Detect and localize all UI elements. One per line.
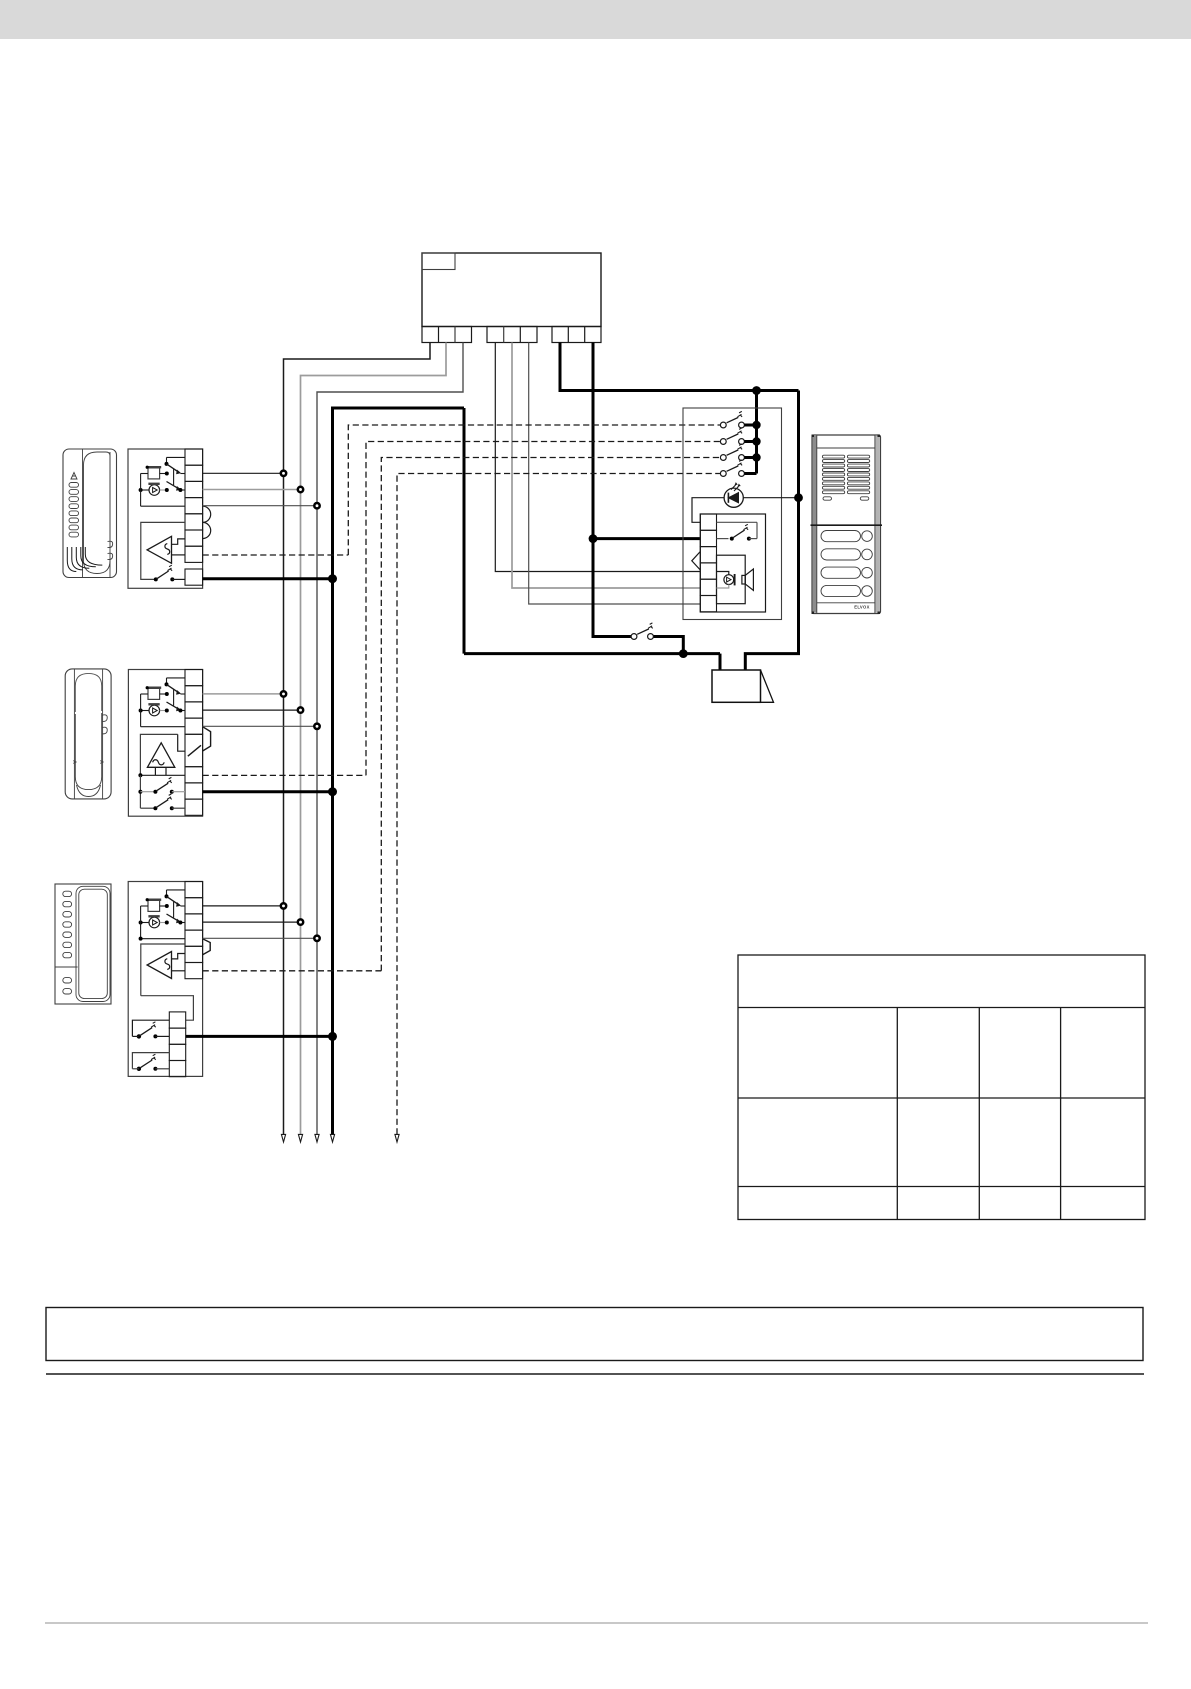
interphone 2 amplifier box	[140, 734, 177, 775]
interphone 1 buttons	[69, 483, 79, 488]
note box	[46, 1308, 1143, 1361]
interphone 2 internal switch blade	[188, 745, 201, 756]
entrance panel name plate 3	[821, 567, 861, 578]
junction riser 1 floor 1	[281, 471, 286, 476]
wire to audio terminal 1	[495, 343, 700, 572]
interphone 1 buzzer common wire	[141, 473, 148, 475]
interphone 3 circuit box	[128, 882, 202, 1077]
wire lock supply	[560, 343, 799, 391]
interphone 2 service switch 2	[140, 807, 155, 809]
junction lock rail	[679, 649, 688, 658]
junction riser 4 floor 1	[328, 574, 337, 583]
interphone 2 wire link	[139, 775, 141, 808]
interphone 2 ringer coil	[148, 688, 160, 699]
riser arrow 3	[315, 1134, 319, 1142]
interphone 3 wire to riser 2	[203, 921, 301, 923]
interphone 2 amplifier	[147, 743, 174, 768]
lamp	[724, 488, 743, 507]
interphone 3 amplifier box	[141, 944, 185, 996]
interphone 2 wire to riser 4	[203, 790, 333, 793]
interphone 1 amplifier box	[141, 522, 185, 579]
interphone 2 wire to riser 1	[203, 693, 284, 695]
interphone 1 grille arcs	[67, 547, 76, 572]
interphone 3 terminal strip	[185, 882, 203, 898]
entrance panel button 3	[862, 567, 873, 578]
interphone 1 handset switch	[154, 577, 158, 581]
lamp wire left	[692, 498, 724, 523]
dashed call wire 3	[203, 970, 382, 972]
speaker module terminal strip	[700, 514, 716, 530]
junction riser 2 floor 3	[298, 919, 303, 924]
dashed call wire 4 spare	[397, 474, 720, 1135]
interphone 3 wire to riser 1	[203, 905, 284, 907]
wire lock bottom rail	[464, 652, 720, 655]
interphone 1 line coil	[203, 506, 211, 538]
interphone 3 service switch 1	[132, 1020, 169, 1036]
junction amplifier supply	[589, 534, 598, 543]
entrance panel speaker grille	[822, 455, 844, 458]
interphone 2 circuit box	[128, 670, 202, 817]
wire call button common riser	[755, 391, 758, 474]
interphone 1 wire to riser 1	[203, 472, 284, 474]
power supply label window	[422, 253, 455, 270]
interphone 1 hooks	[108, 541, 113, 559]
junction riser 1 floor 3	[281, 903, 286, 908]
wire to audio terminal 2	[512, 343, 700, 589]
interphone 3 junction buzzer common	[139, 937, 143, 941]
dashed call wire 2	[203, 774, 366, 776]
wire door switch to lock	[651, 637, 684, 654]
interphone 1 front view	[63, 449, 117, 578]
entrance panel button 4	[862, 586, 873, 597]
svg-text:ELVOX: ELVOX	[854, 605, 869, 610]
interphone 3 line bracket	[203, 939, 211, 955]
junction riser 3 floor 1	[314, 503, 319, 508]
header gray bar	[0, 0, 1191, 39]
footer rule	[45, 1622, 1148, 1624]
speaker box	[717, 555, 746, 604]
interphone 3 service switch 2	[132, 1053, 169, 1069]
interphone 1 wire to riser 2	[203, 489, 301, 491]
interphone 3 hook switch second pole	[167, 914, 180, 922]
interphone 2 wire to riser 2	[203, 709, 301, 711]
junction riser 1 floor 2	[281, 691, 286, 696]
interphone 3 ringer coil	[148, 900, 160, 911]
power supply terminal block 1	[422, 327, 472, 343]
junction lamp to riser	[794, 493, 803, 502]
junction riser 4 floor 3	[328, 1032, 337, 1041]
microphone	[724, 575, 734, 585]
wire bus 3 from power supply	[317, 343, 463, 1135]
interphone 1 buzzer	[149, 485, 160, 496]
interphone 1 wire to riser 4	[203, 577, 333, 580]
riser arrow 1	[281, 1134, 285, 1142]
interphone 2 hooks	[102, 715, 107, 734]
speaker module switch	[717, 521, 758, 523]
interphone 3 speaker grille frame	[76, 886, 110, 1001]
interphone 1 hook switch	[167, 456, 186, 458]
entrance panel name plate 1	[821, 531, 861, 542]
interphone 2 buzzer common wire	[141, 693, 148, 695]
speaker module box	[700, 514, 765, 612]
door release switch	[631, 634, 637, 640]
call button 4 common stub	[744, 472, 756, 475]
riser arrow 2	[298, 1134, 302, 1142]
call button 3	[720, 455, 726, 461]
wire lock supply right riser	[745, 391, 798, 671]
interphone 1 circuit box	[128, 449, 203, 588]
interphone 2 hook switch	[167, 677, 186, 679]
interphone 3 amplifier to lower strip wire	[141, 996, 194, 1021]
entrance panel name plate 4	[821, 585, 861, 596]
interphone 3 buzzer common wire	[141, 905, 148, 907]
entrance panel bottom line	[817, 602, 875, 604]
junction riser 4 floor 2	[328, 787, 337, 796]
separator rule	[46, 1373, 1144, 1375]
interphone 2 service switch 1	[140, 791, 155, 793]
entrance panel	[812, 435, 881, 614]
wire bus 2 from power supply	[301, 343, 447, 1135]
electric lock	[712, 670, 761, 702]
call button 2	[720, 439, 726, 445]
interphone 1 ringer coil	[148, 468, 160, 479]
wire door switch supply	[593, 343, 634, 637]
interphone 2 handset	[75, 673, 101, 712]
junction riser 2 floor 1	[298, 487, 303, 492]
interphone 3 front view	[55, 884, 111, 1004]
interphone 1 volume symbol	[71, 473, 77, 480]
junction call button	[752, 437, 760, 445]
interphone 2 wire to riser 3	[203, 725, 317, 727]
interphone 3 lower terminal strip	[169, 1012, 185, 1028]
lamp wire right	[743, 497, 798, 499]
interphone 2 hook switch second pole	[167, 702, 180, 710]
wire to audio terminal 3	[529, 343, 701, 605]
interphone 3 section line	[55, 966, 78, 968]
junction call button common	[752, 386, 761, 395]
interphone 2 line bracket	[203, 727, 211, 751]
call button 3 common stub	[744, 456, 756, 459]
interphone 2 amplifier output wire	[140, 774, 185, 776]
wire bus 4 common return	[333, 408, 465, 1135]
loudspeaker	[742, 575, 745, 584]
interphone 3 buzzer	[149, 917, 160, 928]
call button 1	[720, 422, 726, 428]
call button 1 common stub	[744, 424, 756, 427]
interphone 3 hook switch	[167, 889, 186, 891]
junction riser 2 floor 2	[298, 707, 303, 712]
interphone 2 buzzer	[149, 705, 160, 716]
riser arrow spare	[395, 1134, 399, 1142]
riser arrow 4	[330, 1134, 334, 1142]
entrance panel button 1	[862, 531, 873, 542]
wire lock return riser	[463, 408, 466, 654]
entrance panel divider	[811, 524, 883, 526]
interphone 1 terminal strip	[185, 449, 203, 465]
speaker unit box	[683, 408, 782, 620]
junction riser 3 floor 2	[314, 724, 319, 729]
wire bus 1 from power supply	[284, 343, 431, 1135]
power supply unit	[422, 253, 601, 327]
interphone 2 front view	[65, 669, 111, 799]
interphone 2 terminal strip	[185, 670, 203, 686]
entrance panel top line	[817, 447, 875, 449]
interphone 3 amplifier	[147, 952, 171, 979]
entrance panel name plate 2	[821, 549, 861, 560]
interphone 3 lower buttons	[63, 978, 72, 983]
interphone 1 amplifier	[147, 536, 171, 563]
interphone 1 wire to riser 3	[203, 505, 317, 507]
conductor table	[738, 955, 1145, 1220]
interphone 3 wire to riser 3	[203, 937, 317, 939]
junction call button	[752, 421, 760, 429]
power supply terminal block 3	[552, 327, 601, 343]
interphone 3 wire to riser 4	[186, 1035, 333, 1038]
junction riser 3 floor 3	[314, 936, 319, 941]
wire amplifier supply	[593, 537, 700, 540]
call button 2 common stub	[744, 440, 756, 443]
power supply terminal block 2	[487, 327, 537, 343]
call button 4	[720, 471, 726, 477]
dashed call wire 1	[203, 554, 349, 556]
interphone 1 hook switch second pole	[167, 482, 180, 490]
interphone 3 buttons	[63, 891, 72, 896]
microphone wires	[717, 572, 729, 575]
entrance panel button 2	[862, 549, 873, 560]
junction call button	[752, 453, 760, 461]
speaker module cable bracket	[692, 552, 701, 571]
